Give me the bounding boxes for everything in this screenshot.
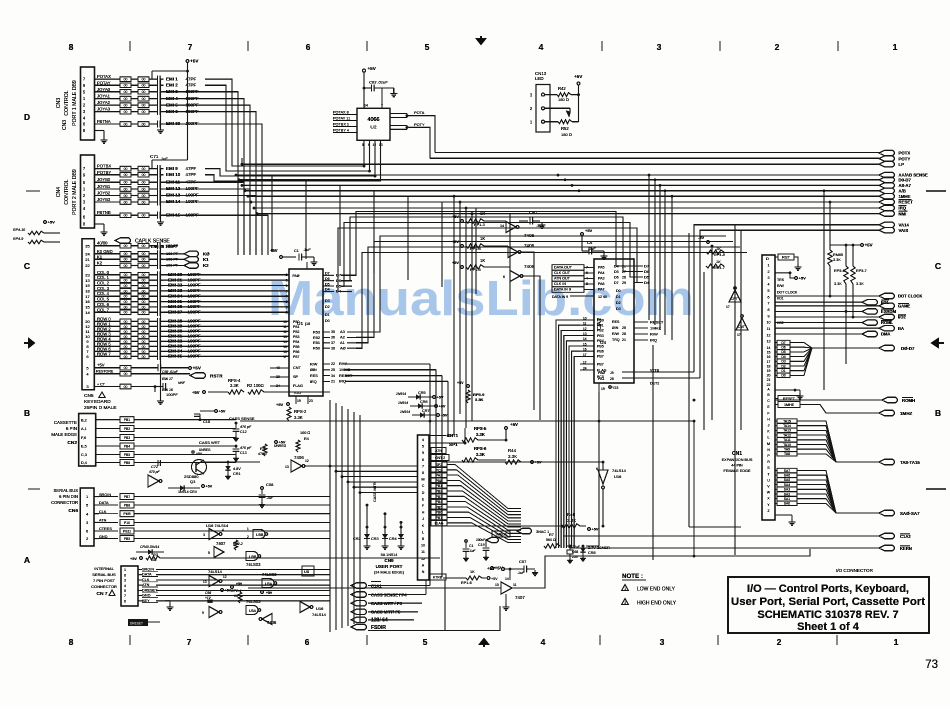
inverter 7406 B [508,247,518,258]
wire bus line [373,191,375,273]
svg-text:C: C [767,399,770,403]
CN1 TA boxes [777,419,797,423]
svg-text:USER PORT: USER PORT [376,564,403,569]
wire bottom long run [368,606,500,631]
svg-text:SA3: SA3 [784,488,791,492]
ground CN3 [95,130,105,132]
svg-text:SA4: SA4 [784,483,791,487]
net flag I/O2 [879,314,895,319]
svg-text:11: 11 [583,322,587,326]
svg-text:D1: D1 [325,313,330,317]
svg-text:PORT 1 MALE DB9: PORT 1 MALE DB9 [72,80,78,126]
svg-text:RPS-6: RPS-6 [474,446,487,451]
svg-text:CN5: CN5 [84,393,94,399]
net flag VAIS [879,228,895,233]
U1 right side data pins [323,274,334,276]
svg-text:D: D [422,491,425,495]
svg-text:4: 4 [124,584,126,588]
svg-text:37: 37 [331,341,335,345]
wire pot lines CN3/CN4 to U2 [205,79,364,166]
svg-text:B: B [24,408,30,418]
svg-text:1N914: 1N914 [400,410,410,414]
ruler top ticks [129,41,131,51]
svg-text:PB3: PB3 [436,495,443,499]
capacitor EMI 32 row ROW 4 [95,340,121,342]
svg-text:13: 13 [285,465,289,469]
svg-text:CN 7: CN 7 [97,591,108,597]
svg-text:SA5: SA5 [784,478,791,482]
svg-text:ManualsLib.com: ManualsLib.com [268,272,694,326]
svg-text:CR40 DIN14: CR40 DIN14 [140,545,159,549]
svg-text:73: 73 [925,659,938,671]
wire bus line [441,202,443,287]
svg-text:10: 10 [767,321,771,325]
net label DRESET [128,619,148,626]
svg-text:CASS SENSE: CASS SENSE [229,416,255,421]
svg-text:RESET: RESET [650,320,664,325]
svg-text:00: 00 [124,284,128,288]
svg-text:U16: U16 [614,474,622,479]
svg-text:6: 6 [503,275,505,279]
svg-text:00: 00 [124,194,128,198]
net flag K0 [184,251,199,256]
svg-text:00: 00 [124,252,128,256]
capacitor EMI 10 row POTBY [95,174,121,176]
capacitor EMI 13 row JOYB2 [95,195,121,197]
svg-text:00: 00 [142,194,146,198]
svg-text:A3: A3 [340,329,346,334]
svg-text:+5V: +5V [192,390,200,395]
svg-text:00: 00 [142,181,146,185]
svg-text:PB4: PB4 [597,339,604,343]
svg-text:+1V: +1V [205,596,212,600]
svg-text:PB7: PB7 [124,495,131,499]
svg-text:14: 14 [583,337,587,341]
wire CN9 PB1 fan [447,486,521,521]
svg-text:E,5: E,5 [81,445,87,449]
capacitor EMI 28 row ROW 0 [95,320,121,322]
svg-text:14: 14 [500,224,504,228]
power +5V CN9 right [491,567,494,570]
svg-text:-5V: -5V [698,235,705,240]
connector CN3 control port 1 male DB9 [81,67,95,140]
net flag TA8-TA15 [836,461,879,463]
svg-text:CASS MTR: CASS MTR [373,482,377,502]
svg-text:TA10: TA10 [783,443,791,447]
capacitor keyboard row K0 GND [95,253,121,255]
svg-text:POTBY 4: POTBY 4 [333,129,349,133]
svg-text:U5B: U5B [249,555,257,559]
center arrow top [477,36,485,44]
svg-text:C58: C58 [266,482,274,487]
svg-text:POTY: POTY [899,156,911,161]
wire trunk to CN9 left pins [329,465,332,468]
svg-text:TA13: TA13 [783,429,791,433]
svg-text:+5V: +5V [48,220,56,225]
svg-text:28: 28 [610,377,614,381]
svg-text:+5V: +5V [270,248,278,253]
svg-text:1: 1 [624,587,626,591]
CN1 RESET 1MHZ boxes [778,396,800,402]
svg-text:PB3: PB3 [597,334,604,338]
svg-text:A/B: A/B [899,189,906,194]
svg-text:19: 19 [85,283,90,288]
svg-text:18: 18 [767,364,771,368]
svg-text:18: 18 [85,288,90,293]
svg-text:D6: D6 [644,269,650,274]
svg-text:00: 00 [142,335,146,339]
wire U1 address staircase right [356,236,726,332]
svg-text:13: 13 [203,580,207,584]
svg-text:00: 00 [142,305,146,309]
svg-text:RP1-7: RP1-7 [714,266,726,270]
svg-text:560 Ω: 560 Ω [546,538,556,542]
svg-text:PB5: PB5 [124,453,131,457]
svg-text:PB8: PB8 [124,504,131,508]
svg-text:47PF: 47PF [186,166,197,171]
inverter 7407 bottom [501,582,512,594]
svg-text:28: 28 [622,275,626,279]
svg-text:1MHE: 1MHE [899,194,911,199]
svg-text:CR5: CR5 [418,391,426,395]
svg-text:20: 20 [767,374,771,378]
svg-text:2: 2 [624,601,626,605]
svg-text:SCHEMATIC 310378 REV. 7: SCHEMATIC 310378 REV. 7 [757,609,898,621]
svg-text:12: 12 [223,575,227,579]
svg-text:+5V: +5V [193,366,202,371]
net flag FSDIR [351,624,367,629]
wire CN9 PBØ fan [447,480,521,517]
svg-text:CR3: CR3 [371,537,379,541]
svg-text:VA14: VA14 [899,223,910,228]
svg-text:C13: C13 [240,451,247,455]
svg-text:10: 10 [283,320,287,324]
svg-text:C1A2: C1A2 [900,534,911,539]
svg-text:00: 00 [124,97,128,101]
svg-text:FSDIR: FSDIR [371,625,386,631]
svg-text:DOT CLOCK: DOT CLOCK [777,290,798,294]
svg-text:A1: A1 [340,340,346,345]
capacitor C57 right of CN9 [465,540,468,543]
svg-text:RP5-7: RP5-7 [856,269,867,273]
svg-text:1MHZ: 1MHZ [900,411,913,416]
svg-text:RST: RST [782,255,791,260]
svg-text:+5V: +5V [574,74,583,79]
svg-text:00: 00 [142,345,146,349]
svg-text:5: 5 [208,551,210,555]
svg-text:8: 8 [124,573,126,577]
LED arrow CN13 [545,107,567,109]
svg-text:25: 25 [331,368,335,372]
svg-text:+5V: +5V [196,452,203,456]
svg-text:PA6: PA6 [598,282,605,286]
svg-text:J9: J9 [610,371,614,375]
svg-text:00: 00 [124,325,128,329]
capacitor EMI 5 row JOYA2 [95,104,121,106]
svg-text:CONNECTOR: CONNECTOR [91,584,117,589]
svg-text:TMKCE: TMKCE [495,533,508,537]
power +5V gates2 [231,586,234,589]
svg-text:1K: 1K [480,236,485,241]
svg-text:Q3: Q3 [190,479,196,484]
svg-text:K1: K1 [203,257,209,262]
svg-text:D0: D0 [781,374,785,378]
svg-text:KØ: KØ [203,252,210,257]
svg-text:RPS-5: RPS-5 [474,426,487,431]
svg-text:00: 00 [124,345,128,349]
capacitor keyboard row K2 [95,265,121,267]
boxed label THMCE [492,531,510,537]
svg-text:COL 4: COL 4 [97,291,110,296]
svg-text:21: 21 [622,338,626,342]
svg-text:C: C [422,484,425,488]
svg-text:1K: 1K [480,258,485,263]
wire horizontal y421 [240,420,694,422]
svg-text:CONTROL: CONTROL [64,179,70,204]
svg-text:D1: D1 [616,295,621,299]
svg-text:00: 00 [142,97,146,101]
ruler right letters [935,261,941,418]
connector CN1 expansion bus 44 pin [762,255,775,520]
svg-text:3.3K: 3.3K [834,282,842,286]
svg-text:100 Ω: 100 Ω [300,431,310,435]
svg-text:RP1-6: RP1-6 [461,581,472,585]
svg-text:13: 13 [767,340,771,344]
svg-text:D7: D7 [325,272,330,276]
svg-text:UNREG: UNREG [199,448,211,452]
svg-text:PB0: PB0 [293,320,300,324]
svg-text:3: 3 [657,42,662,52]
wire bus line [305,180,307,259]
power +5V pullups [845,244,848,247]
svg-text:FLAG: FLAG [293,384,303,388]
gate U8 box [302,566,314,576]
svg-text:D2: D2 [781,364,785,368]
svg-text:F,6: F,6 [81,436,86,440]
svg-text:D6: D6 [781,346,785,350]
svg-text:CLK: CLK [142,578,150,582]
svg-text:1: 1 [768,264,770,268]
svg-text:15: 15 [583,342,587,346]
svg-text:DOT CLOCK: DOT CLOCK [898,294,922,299]
svg-text:POTBY: POTBY [97,170,111,175]
svg-text:9: 9 [286,305,288,309]
svg-text:SA1: SA1 [784,497,791,501]
note triangle 2 high end only [622,599,629,605]
svg-text:7 PIN POST: 7 PIN POST [93,578,116,583]
svg-text:PB5: PB5 [436,505,443,509]
row RESTORE [94,373,120,375]
op-amp U2 4066 analog switch [357,108,390,140]
capacitor EMI 29 row ROW 1 [95,325,121,327]
svg-text:00: 00 [124,167,128,171]
svg-text:13: 13 [379,143,383,147]
svg-text:CN6: CN6 [68,508,78,514]
svg-text:R4: R4 [304,437,309,441]
net flag RSTR [190,373,206,379]
svg-text:12: 12 [373,143,377,147]
svg-text:RESET: RESET [783,397,796,401]
svg-text:180 Ω: 180 Ω [558,97,569,102]
svg-text:EMI 9: EMI 9 [166,166,178,171]
svg-text:470 pF: 470 pF [240,425,252,429]
svg-text:4: 4 [222,528,224,532]
svg-text:D3: D3 [616,307,621,311]
svg-text:74LS03: 74LS03 [246,599,261,604]
svg-text:00: 00 [124,385,128,389]
row +5V keyboard [94,367,120,369]
svg-text:User Port, Serial Port, Casset: User Port, Serial Port, Cassette Port [731,596,925,608]
svg-text:17: 17 [726,305,730,309]
wire bus drops to U4 [648,174,651,177]
svg-text:DATA OUT: DATA OUT [554,266,573,270]
wire vertical x599 [598,392,600,546]
net flag I/O1 [862,300,878,305]
svg-text:A,1: A,1 [81,427,87,431]
svg-text:R44: R44 [508,448,517,453]
svg-text:RES: RES [310,374,318,378]
net flag POTY [879,156,895,161]
svg-text:CASSETTE: CASSETTE [54,420,77,425]
svg-text:+5V: +5V [236,582,243,586]
svg-text:D4: D4 [644,280,650,285]
net flag IRQ [879,205,895,210]
net flag CASS SENSE / P4 [351,592,367,597]
svg-text:D7: D7 [781,341,785,345]
capacitor EMI 15 row FBTNB [95,214,121,216]
op-amp U4 CIA 6526 second [594,259,634,383]
net flag EXROM [862,309,878,314]
svg-text:+ CT: + CT [97,383,106,387]
svg-text:SAØ-SA7: SAØ-SA7 [900,511,920,516]
svg-text:8: 8 [69,637,74,647]
svg-text:TA15: TA15 [783,419,791,423]
svg-text:PB1: PB1 [597,324,604,328]
svg-text:TA12: TA12 [783,433,791,437]
svg-text:8: 8 [422,471,424,475]
svg-text:21: 21 [85,257,90,262]
power +5V left edge [44,221,47,224]
svg-text:3.3K: 3.3K [508,454,517,459]
ground CN1 bottom [775,514,792,516]
svg-text:15: 15 [283,345,287,349]
svg-text:00: 00 [124,279,128,283]
svg-text:7407: 7407 [216,541,226,546]
svg-text:15: 15 [767,351,771,355]
wire CN9 PA2 fan [447,475,521,515]
svg-text:00: 00 [142,78,146,82]
power +5V U2 [363,69,366,72]
svg-text:PB6: PB6 [597,350,604,354]
svg-text:POTAY 11: POTAY 11 [333,117,350,121]
net flag ROML [862,320,878,325]
svg-text:+5V: +5V [535,461,542,465]
svg-text:00: 00 [124,173,128,177]
svg-text:00: 00 [142,258,146,262]
svg-text:KEYBOARD: KEYBOARD [84,399,111,405]
svg-text:00: 00 [124,300,128,304]
svg-text:DET2: DET2 [650,382,659,386]
svg-text:15: 15 [85,305,90,310]
svg-text:6: 6 [596,467,598,471]
svg-text:C: C [935,261,941,271]
svg-text:3.3K: 3.3K [475,397,484,402]
gate U5B2 NAND [246,552,258,561]
wire bus line [271,175,273,252]
svg-text:2: 2 [768,270,770,274]
svg-text:KERN: KERN [900,546,912,551]
svg-text:I/O1: I/O1 [777,297,784,301]
svg-text:22: 22 [85,263,90,268]
center arrow right [932,339,944,347]
wire 7407 out step to right [512,549,810,588]
svg-text:LED: LED [535,76,544,81]
svg-text:DATA: DATA [99,501,109,505]
svg-text:1K: 1K [470,570,475,574]
capacitor EMI 33 row ROW 5 [95,345,121,347]
svg-text:RESTORE: RESTORE [96,370,114,374]
svg-text:7406: 7406 [524,264,535,269]
inverter 74LS14 C [209,607,219,618]
svg-text:12: 12 [305,459,309,463]
svg-text:IRQ: IRQ [899,206,907,211]
svg-text:MALE EDGE: MALE EDGE [51,432,77,437]
svg-text:POTAX 8: POTAX 8 [333,111,349,115]
svg-text:00: 00 [124,200,128,204]
ruler bottom ticks [129,635,131,645]
svg-text:U5A: U5A [249,609,257,613]
svg-text:00: 00 [142,325,146,329]
svg-text:R52: R52 [561,126,569,131]
svg-text:1MHE: 1MHE [784,403,795,407]
svg-text:ØIN: ØIN [310,368,317,372]
svg-text:NNF: NNF [178,381,186,385]
svg-text:1: 1 [894,637,899,647]
svg-text:11: 11 [283,325,287,329]
wire U1 control to right [345,363,430,365]
svg-text:3NAC 1: 3NAC 1 [536,530,549,534]
svg-text:C71: C71 [150,154,159,159]
svg-text:7406: 7406 [524,243,535,248]
svg-text:34: 34 [331,374,335,378]
svg-text:SA7: SA7 [784,469,791,473]
svg-text:R42: R42 [558,86,566,91]
svg-text:17: 17 [583,353,587,357]
wire 7406D out [304,465,330,467]
svg-text:23: 23 [309,399,313,403]
svg-text:FEMALE EDGE: FEMALE EDGE [723,469,750,473]
svg-text:TOD: TOD [293,391,301,395]
svg-text:4: 4 [768,283,770,287]
svg-text:5: 5 [362,143,364,147]
svg-text:I/O2: I/O2 [898,315,906,320]
svg-text:00: 00 [124,311,128,315]
svg-text:PB5: PB5 [597,344,604,348]
svg-text:U: U [767,478,770,482]
svg-text:RM65: RM65 [833,253,843,257]
net flag D0-D7 [879,177,895,182]
svg-text:00: 00 [124,305,128,309]
net flag VA14 [879,222,895,227]
svg-text:PB3: PB3 [124,436,131,440]
svg-text:17: 17 [85,294,90,299]
capacitor EMI 22 row COL 2 [95,285,121,287]
svg-text:00: 00 [142,90,146,94]
svg-text:74LS14: 74LS14 [612,468,627,473]
ruler left letters [24,112,30,565]
svg-text:AØ: AØ [340,345,346,350]
svg-text:HIGH END ONLY: HIGH END ONLY [637,601,677,607]
